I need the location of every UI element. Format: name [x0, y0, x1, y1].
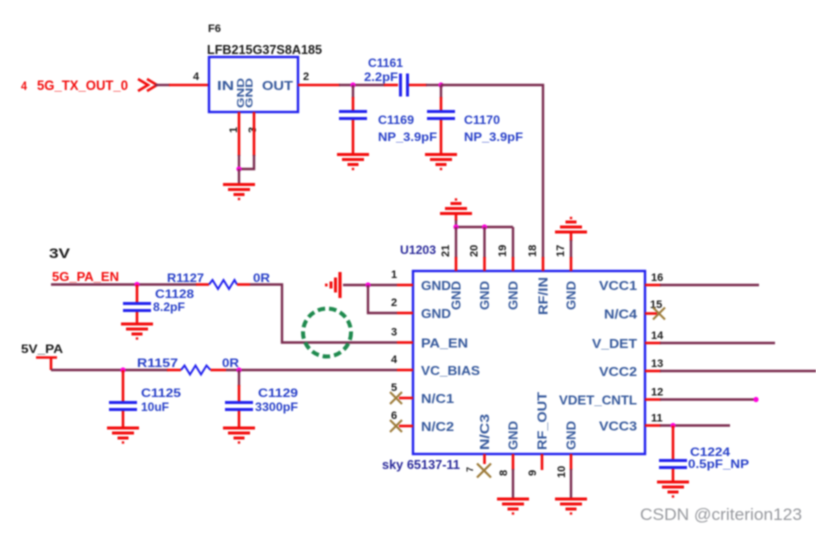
wire VDET_CNTL pin12 [660, 398, 756, 400]
pin stubs top [456, 257, 571, 271]
capacitor C1161 [364, 56, 408, 97]
svg-text:2.2pF: 2.2pF [364, 70, 398, 84]
IC U1203 [413, 271, 645, 454]
ground above pin 17 [555, 218, 587, 241]
svg-text:N/C1: N/C1 [421, 391, 454, 406]
wire C1161 right [409, 84, 441, 87]
svg-text:CSDN @criterion123: CSDN @criterion123 [640, 505, 802, 524]
svg-text:GND: GND [477, 281, 492, 310]
svg-text:RF/IN: RF/IN [536, 277, 551, 315]
no-connect X pin15 [653, 308, 665, 320]
capacitor C1169 [339, 85, 437, 153]
capacitor C1128 [123, 285, 194, 324]
svg-text:GND: GND [564, 421, 579, 450]
svg-text:GND: GND [506, 281, 521, 310]
svg-text:LFB215G37S8A185: LFB215G37S8A185 [207, 42, 322, 57]
junction bus pin20 [482, 224, 487, 229]
svg-text:N/C2: N/C2 [421, 419, 454, 434]
wire pin10 to ground [570, 469, 572, 498]
wire junction to ground [238, 169, 240, 184]
svg-text:15: 15 [650, 299, 662, 311]
off-page connector chevron [138, 79, 157, 91]
svg-text:V_DET: V_DET [592, 336, 637, 351]
ground sideways at pins 1-2 [326, 272, 340, 298]
svg-text:F6: F6 [208, 23, 221, 35]
junction bus pin21 [453, 224, 458, 229]
svg-text:18: 18 [527, 245, 539, 257]
svg-text:5G_TX_OUT_0: 5G_TX_OUT_0 [37, 77, 128, 93]
svg-text:PA_EN: PA_EN [421, 336, 468, 351]
svg-text:U1203: U1203 [400, 243, 436, 257]
no-connect X pin5 [390, 392, 402, 404]
wire F6 pin3 down [239, 112, 254, 169]
no-connect X pin7 [477, 464, 491, 478]
svg-text:13: 13 [651, 358, 663, 370]
svg-text:C1169: C1169 [378, 113, 414, 127]
svg-text:GND: GND [564, 281, 579, 310]
wire ground to pin17 [570, 240, 572, 258]
svg-text:C1128: C1128 [155, 287, 194, 301]
svg-text:4: 4 [21, 79, 27, 93]
wire junction to pin2 [368, 285, 397, 313]
wire top bus pins 21-19 [456, 226, 513, 228]
pin stubs right [645, 285, 661, 426]
junction C1129 [236, 367, 241, 372]
capacitor C1224 [659, 426, 749, 482]
wire F6 pin1 down [238, 112, 241, 170]
pin stubs bottom [485, 454, 572, 470]
svg-text:R1127: R1127 [167, 273, 204, 285]
svg-text:3: 3 [391, 327, 397, 339]
pin stubs left [397, 285, 413, 426]
wire V_DET pin14 [660, 342, 775, 344]
wire to RF/IN pin 18 [441, 85, 543, 258]
svg-text:OUT: OUT [262, 78, 293, 93]
svg-text:GND: GND [421, 278, 451, 293]
wire R1157 to VC_BIAS pin4 [226, 369, 397, 371]
svg-text:VDET_CNTL: VDET_CNTL [559, 393, 637, 408]
junction pin2 branch [365, 282, 370, 287]
wire pin8 to ground [512, 469, 514, 498]
svg-text:7: 7 [465, 467, 475, 472]
wire VCC1 pin16 [660, 284, 759, 286]
svg-text:2: 2 [391, 297, 397, 309]
junction C1128 [134, 282, 139, 287]
svg-text:GND: GND [421, 306, 451, 321]
svg-text:0.5pF_NP: 0.5pF_NP [688, 457, 749, 471]
highlight circle [303, 309, 351, 357]
junction F6 gnd [236, 166, 241, 171]
svg-text:VCC2: VCC2 [599, 364, 637, 379]
ground C1129 [223, 428, 255, 443]
junction C1224 [670, 423, 675, 428]
wire F6 pin2 to C1161 [298, 84, 340, 87]
wire bus to pin19 [512, 227, 514, 258]
capacitor C1170 [427, 85, 523, 153]
capacitor C1125 [109, 370, 181, 427]
wire VCC2 pin13 [660, 370, 816, 372]
ground above pin 21 [440, 200, 472, 222]
svg-text:2: 2 [303, 71, 309, 83]
svg-text:5V_PA: 5V_PA [21, 342, 63, 356]
ground C1169 [337, 155, 369, 170]
ground pin8 [497, 499, 529, 514]
svg-text:VC_BIAS: VC_BIAS [421, 363, 480, 378]
svg-text:20: 20 [469, 245, 481, 257]
ground C1128 [121, 324, 153, 339]
svg-text:C1170: C1170 [464, 113, 500, 127]
svg-text:10uF: 10uF [141, 400, 169, 414]
svg-text:0R: 0R [253, 273, 271, 285]
svg-text:4: 4 [391, 354, 398, 366]
wire chevron to F6 pin4 [155, 84, 209, 86]
svg-text:8: 8 [498, 470, 510, 476]
svg-text:GND: GND [506, 421, 521, 450]
svg-text:3V: 3V [49, 245, 71, 261]
ground C1224 [657, 482, 689, 497]
junction at C1170 [438, 82, 443, 87]
junction C1125 [120, 367, 125, 372]
resistor R1127 [167, 273, 271, 289]
svg-text:3300pF: 3300pF [255, 400, 298, 414]
svg-text:5G_PA_EN: 5G_PA_EN [52, 269, 119, 284]
junction at C1169 [350, 82, 355, 87]
svg-text:16: 16 [651, 272, 663, 284]
capacitor C1129 [225, 370, 298, 427]
filter F6 [209, 57, 298, 112]
wire ground to pin1 [343, 284, 397, 286]
svg-text:19: 19 [497, 245, 509, 257]
node end dot pin12 [753, 397, 758, 402]
svg-text:21: 21 [440, 245, 452, 257]
svg-text:8.2pF: 8.2pF [153, 300, 185, 314]
svg-text:NP_3.9pF: NP_3.9pF [464, 130, 523, 144]
svg-text:NP_3.9pF: NP_3.9pF [378, 130, 437, 144]
svg-text:5: 5 [391, 382, 397, 394]
wire bus to pin20 [483, 227, 485, 258]
svg-text:6: 6 [391, 410, 397, 422]
svg-text:IN: IN [217, 78, 234, 93]
svg-text:sky 65137-11: sky 65137-11 [382, 457, 460, 472]
ground C1125 [107, 428, 139, 443]
svg-text:10: 10 [556, 466, 568, 478]
wire R1127 to PA_EN pin3 [250, 285, 397, 343]
wire bus to pin21 [455, 227, 457, 258]
ground F6 [223, 185, 255, 200]
svg-text:VCC3: VCC3 [599, 419, 637, 434]
ground C1170 [425, 155, 457, 170]
wire 5V_PA to R1157 [51, 369, 168, 371]
svg-text:VCC1: VCC1 [599, 278, 637, 293]
power port 5V_PA [21, 342, 63, 370]
svg-text:4: 4 [193, 71, 200, 83]
svg-text:14: 14 [651, 330, 664, 342]
svg-text:C1161: C1161 [368, 56, 403, 70]
no-connect X pin6 [390, 420, 402, 432]
svg-text:RF_OUT: RF_OUT [535, 392, 550, 450]
svg-text:C1129: C1129 [258, 386, 298, 400]
wire 5G_PA_EN to R1127 [51, 283, 197, 285]
svg-text:17: 17 [555, 245, 567, 257]
wire VCC3 pin11 [660, 424, 730, 426]
svg-text:11: 11 [651, 413, 663, 425]
svg-text:GND: GND [245, 78, 256, 108]
wire ground to top bus [455, 220, 457, 227]
svg-text:12: 12 [651, 387, 663, 399]
svg-text:C1125: C1125 [141, 386, 181, 400]
ground pin10 [555, 499, 587, 514]
resistor R1157 [137, 358, 240, 375]
svg-text:9: 9 [527, 470, 539, 476]
svg-text:N/C4: N/C4 [604, 307, 638, 322]
svg-text:N/C3: N/C3 [477, 414, 492, 450]
svg-text:R1157: R1157 [137, 358, 178, 370]
svg-text:1: 1 [391, 269, 397, 281]
